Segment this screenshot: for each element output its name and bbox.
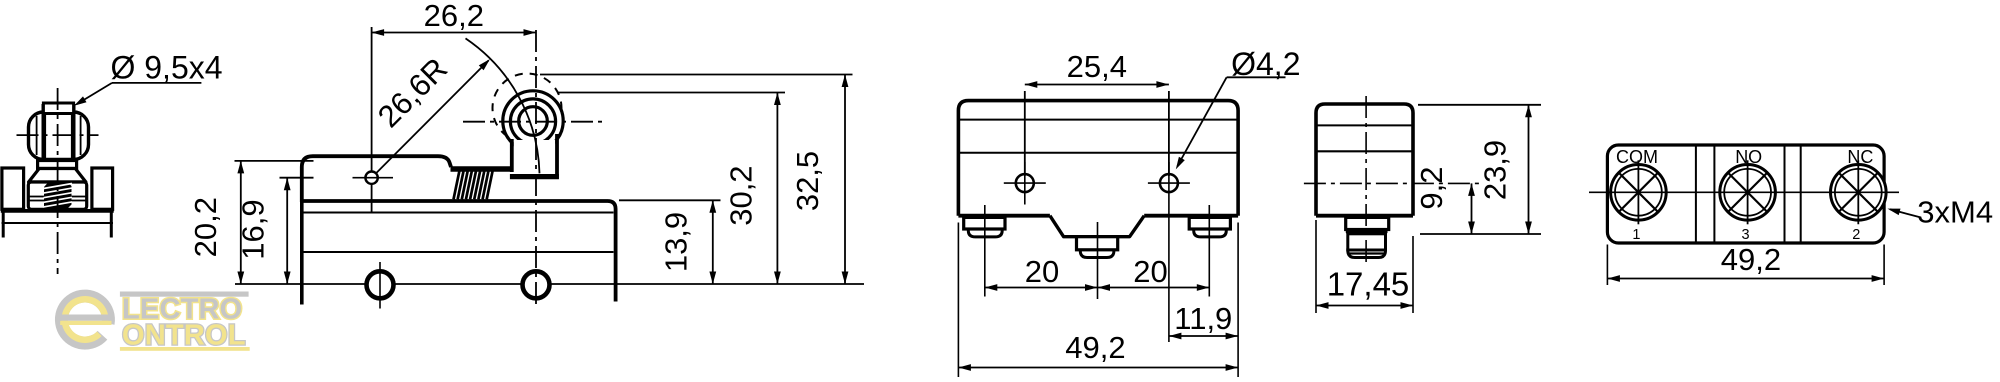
svg-text:1: 1 [1632,227,1640,243]
svg-text:11,9: 11,9 [1174,301,1232,336]
svg-text:20: 20 [1025,254,1059,289]
svg-text:NC: NC [1847,147,1873,167]
svg-text:30,2: 30,2 [724,165,759,225]
svg-text:26,2: 26,2 [424,0,484,33]
svg-text:23,9: 23,9 [1478,140,1513,200]
svg-text:Ø 9,5x4: Ø 9,5x4 [110,49,222,85]
svg-text:COM: COM [1616,147,1658,167]
svg-text:3: 3 [1742,227,1750,243]
svg-text:49,2: 49,2 [1721,242,1781,277]
svg-text:2: 2 [1852,227,1860,243]
svg-text:20: 20 [1133,254,1167,289]
svg-text:20,2: 20,2 [188,197,223,257]
svg-text:16,9: 16,9 [236,199,271,259]
svg-text:49,2: 49,2 [1065,330,1125,365]
svg-text:17,45: 17,45 [1327,266,1410,303]
svg-text:NO: NO [1735,147,1762,167]
svg-text:32,5: 32,5 [790,151,825,211]
svg-text:13,9: 13,9 [659,212,694,272]
svg-text:9,2: 9,2 [1414,166,1449,209]
svg-text:25,4: 25,4 [1067,49,1127,84]
svg-text:ONTROL: ONTROL [122,320,246,352]
svg-text:3xM4: 3xM4 [1917,195,1993,230]
